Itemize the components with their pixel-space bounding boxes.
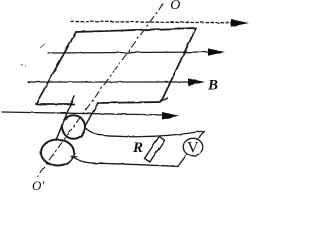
coil loop: bottom edge right part <box>97 102 161 103</box>
svg-text:O: O <box>170 0 180 13</box>
coil loop: right edge <box>161 28 196 102</box>
field line 3 (labelled B) <box>28 81 192 83</box>
svg-text:V: V <box>187 139 199 156</box>
svg-text:R: R <box>132 140 143 156</box>
wire: top rail corner down to voltmeter <box>198 131 205 140</box>
arrowhead of field line 4 <box>162 112 179 120</box>
arrowhead of field line 2 <box>208 48 225 55</box>
voltmeter V (circle) <box>183 138 203 155</box>
faint scan tick near field line 2 start <box>40 44 45 48</box>
slip ring lower <box>41 140 74 166</box>
svg-text:O′: O′ <box>32 178 44 193</box>
slip ring upper <box>62 115 85 139</box>
arrowhead of field line 3 <box>188 78 205 85</box>
field line 4 <box>2 112 167 115</box>
coil loop: corner overshoot tick at bottom-right <box>161 98 168 102</box>
coil loop: left edge <box>36 32 76 104</box>
wire: upper brush to circuit (top rail) <box>86 129 204 137</box>
coil loop: bottom edge left part <box>36 103 74 105</box>
brush tick at lower slip ring <box>71 155 77 158</box>
field line 2 <box>48 52 212 53</box>
resistor R (slanted box between rails) <box>144 137 164 162</box>
wire: lower brush to circuit (bottom rail) <box>74 158 178 167</box>
wire: bottom rail up to voltmeter <box>178 155 187 167</box>
arrowhead of field line 1 <box>231 19 249 27</box>
stray scan dots <box>21 64 23 66</box>
coil loop: top edge <box>76 28 196 32</box>
svg-text:B: B <box>207 78 218 94</box>
field line 1 (top, dashed) <box>71 22 234 23</box>
rotation axis O-O' (dash-dot) <box>36 4 163 178</box>
coil lead to lower slip ring <box>56 96 74 140</box>
coil lead to upper slip ring <box>85 103 98 126</box>
